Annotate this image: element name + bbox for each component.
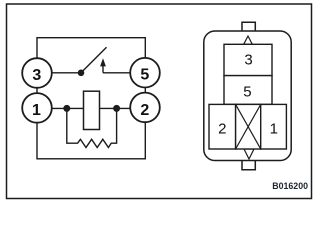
svg-text:B016200: B016200 bbox=[272, 181, 308, 191]
keying triangle top bbox=[244, 36, 253, 44]
connector top tab bbox=[242, 22, 255, 31]
switch actuator arrow bbox=[100, 58, 106, 73]
cavity pin 3 bbox=[224, 44, 272, 75]
svg-text:1: 1 bbox=[32, 102, 41, 119]
svg-text:3: 3 bbox=[32, 67, 41, 84]
svg-text:3: 3 bbox=[244, 52, 252, 69]
wire: switch arrow to terminal 5 bbox=[103, 72, 130, 74]
cavity pin 2 bbox=[209, 104, 236, 149]
terminal 5 bbox=[130, 58, 160, 88]
svg-text:2: 2 bbox=[218, 121, 226, 138]
cavity pin 1 bbox=[261, 104, 287, 149]
node: junction right bbox=[113, 105, 120, 112]
switch S1 pivot junction bbox=[78, 70, 85, 77]
node: junction left bbox=[63, 105, 70, 112]
connector bottom tab bbox=[242, 161, 255, 170]
wire: terminal 3 to switch pivot bbox=[52, 72, 81, 74]
connector body outline bbox=[204, 31, 291, 161]
blocked cavity (X) bbox=[236, 104, 261, 149]
resistor R1 (parallel branch with zigzag) bbox=[67, 108, 117, 147]
svg-text:2: 2 bbox=[140, 102, 149, 119]
keying triangle bottom bbox=[244, 149, 254, 159]
cavity pin 5 bbox=[224, 76, 272, 105]
svg-text:1: 1 bbox=[270, 121, 278, 138]
wire: coil to terminal 2 bbox=[100, 107, 131, 109]
relay circuit outline (left schematic frame) bbox=[37, 38, 145, 159]
wire: terminal 1 to coil bbox=[52, 107, 84, 109]
terminal 2 bbox=[130, 93, 160, 123]
svg-text:5: 5 bbox=[140, 67, 149, 84]
terminal 1 bbox=[22, 93, 52, 123]
relay coil L1 bbox=[84, 91, 100, 129]
terminal 3 bbox=[22, 58, 52, 88]
svg-text:5: 5 bbox=[243, 83, 251, 100]
switch S1 blade bbox=[81, 47, 107, 73]
